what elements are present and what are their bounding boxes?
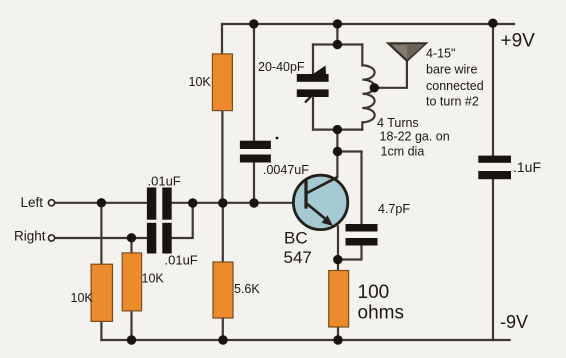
wire tank left lower xyxy=(312,97,314,130)
wire C3 lower lead xyxy=(253,163,255,204)
node base divider xyxy=(218,198,227,207)
wire R3 top lead xyxy=(100,203,102,264)
svg-text:10K: 10K xyxy=(142,272,165,286)
wire tank right lower xyxy=(361,122,363,129)
terminal Right xyxy=(48,235,54,241)
node tank bottom xyxy=(333,125,342,134)
node top rail / tank xyxy=(333,19,342,28)
wire tank top xyxy=(313,43,362,45)
wire C4 upper lead xyxy=(360,152,362,225)
wire base line xyxy=(172,202,307,204)
resistor R4 10K (right) xyxy=(122,253,141,311)
antenna xyxy=(388,43,425,60)
node top rail / C3 xyxy=(249,19,258,28)
capacitor C2 .01uF (Right channel) xyxy=(147,223,172,254)
wire tank feed xyxy=(336,24,338,45)
svg-text:BC: BC xyxy=(284,229,308,248)
resistor R3 10K (left) xyxy=(91,264,112,321)
wire tank left upper xyxy=(312,45,314,75)
capacitor C3 .0047uF xyxy=(240,137,279,163)
svg-text:10K: 10K xyxy=(71,291,94,305)
node bottom rail / R6 xyxy=(333,335,342,344)
svg-text:Right: Right xyxy=(14,229,46,244)
wire Right input xyxy=(55,237,147,239)
wire C4 lower lead xyxy=(338,246,362,260)
terminal Left xyxy=(48,200,54,206)
wire collector drop xyxy=(336,130,338,178)
svg-text:-9V: -9V xyxy=(500,312,528,332)
wire right rail lower xyxy=(492,179,494,340)
svg-text:4-15": 4-15" xyxy=(426,47,455,61)
svg-text:5.6K: 5.6K xyxy=(234,282,260,296)
node Left line / R3 xyxy=(97,198,106,207)
resistor R2 10K (top) xyxy=(212,54,232,111)
node coil tap turn 2 xyxy=(370,83,379,92)
wire right rail upper xyxy=(492,23,494,156)
wire R4 top lead xyxy=(130,238,132,253)
svg-text:.01uF: .01uF xyxy=(165,252,198,267)
node top rail / right rail xyxy=(488,19,497,28)
svg-text:4 Turns: 4 Turns xyxy=(377,116,419,130)
node bottom rail / R4 xyxy=(127,335,136,344)
wire R5 bottom lead xyxy=(222,318,224,340)
svg-text:.1uF: .1uF xyxy=(513,159,541,175)
wire R4 bottom lead xyxy=(130,311,132,340)
svg-text:1cm dia: 1cm dia xyxy=(381,145,425,159)
node bottom rail / R5 xyxy=(218,335,227,344)
svg-text:Left: Left xyxy=(21,195,44,210)
wire R3 bottom lead xyxy=(100,321,102,340)
wire tank bottom xyxy=(313,129,362,131)
wire antenna tap xyxy=(374,61,407,88)
svg-text:.01uF: .01uF xyxy=(148,173,181,188)
wire R6 bottom lead xyxy=(337,327,339,340)
svg-text:ohms: ohms xyxy=(358,303,404,324)
wire R5 top lead xyxy=(222,203,224,262)
svg-text:10K: 10K xyxy=(189,75,212,89)
node tank top xyxy=(333,40,342,49)
svg-text:connected: connected xyxy=(426,79,484,93)
node mix xyxy=(188,198,197,207)
wire tank right upper xyxy=(361,45,363,66)
svg-text:.0047uF: .0047uF xyxy=(263,163,309,177)
node emitter xyxy=(333,255,342,264)
wire bottom -9V rail xyxy=(101,339,509,341)
wire R2 top lead from rail xyxy=(221,24,223,54)
capacitor C5 .1uF xyxy=(478,156,511,180)
resistor R6 100 ohms xyxy=(329,271,349,328)
svg-text:+9V: +9V xyxy=(501,31,536,52)
svg-text:547: 547 xyxy=(284,248,312,267)
capacitor C1 .01uF (Left channel) xyxy=(147,188,172,220)
wire Left input xyxy=(55,202,147,204)
capacitor C4 4.7pF xyxy=(346,224,378,246)
resistor R5 5.6K xyxy=(213,262,233,318)
node base / C3 xyxy=(249,198,258,207)
wire Right jog to mix node xyxy=(172,203,193,238)
node collector / C4 tap xyxy=(333,147,342,156)
wire R2 bottom lead to base node xyxy=(221,111,223,203)
svg-text:4.7pF: 4.7pF xyxy=(378,202,410,216)
wire C3 upper lead xyxy=(253,24,255,141)
svg-text:18-22 ga. on: 18-22 ga. on xyxy=(380,130,450,144)
wire R6 top lead xyxy=(337,260,339,271)
capacitor C6 20-40pF variable xyxy=(297,66,329,103)
node Right line / R4 xyxy=(127,233,136,242)
wire C4 tap horizontal xyxy=(338,150,362,152)
transistor Q1 BC547 xyxy=(293,175,347,229)
svg-text:100: 100 xyxy=(358,282,390,303)
wire top +9V rail xyxy=(222,23,514,25)
svg-text:bare wire: bare wire xyxy=(426,63,477,77)
svg-text:20-40pF: 20-40pF xyxy=(258,60,305,74)
inductor L1 4 turns xyxy=(362,65,374,122)
svg-text:to turn #2: to turn #2 xyxy=(426,95,479,109)
wire emitter drop xyxy=(337,227,339,260)
